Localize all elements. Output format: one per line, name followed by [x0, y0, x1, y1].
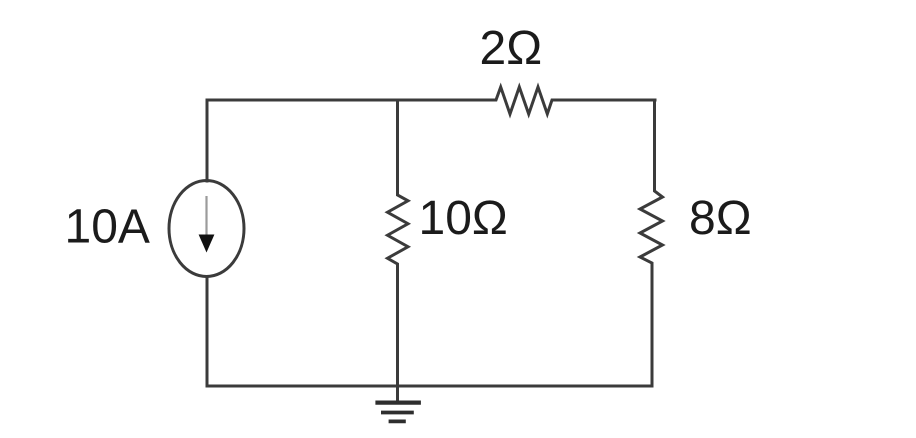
svg-text:8Ω: 8Ω [689, 192, 752, 245]
svg-text:10A: 10A [65, 201, 150, 254]
svg-text:2Ω: 2Ω [480, 22, 543, 75]
svg-text:10Ω: 10Ω [419, 192, 508, 245]
